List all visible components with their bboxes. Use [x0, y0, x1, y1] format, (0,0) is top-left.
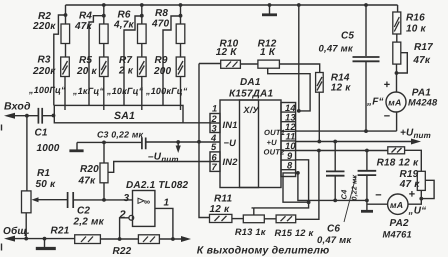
svg-text:R1: R1	[37, 168, 50, 179]
svg-text:13: 13	[285, 112, 296, 122]
svg-text:−: −	[375, 190, 382, 202]
svg-text:∞: ∞	[144, 197, 150, 207]
svg-text:1: 1	[164, 198, 170, 209]
svg-text:OUT1: OUT1	[264, 128, 285, 137]
svg-text:„1кГц“: „1кГц“	[72, 86, 104, 96]
ground (top middle)	[269, 5, 271, 14]
svg-text:6: 6	[212, 153, 218, 163]
svg-text:R7: R7	[119, 55, 132, 66]
wire +U (pin11) with supply arrow	[296, 141, 413, 143]
wire OUT1 (pin12)	[296, 130, 397, 132]
svg-text:X/У: X/У	[243, 105, 260, 115]
svg-text:47к: 47к	[78, 176, 97, 187]
resistor R3	[61, 57, 70, 77]
svg-text:0,47 мк: 0,47 мк	[317, 235, 352, 246]
svg-text:R13 1к: R13 1к	[235, 227, 267, 237]
svg-text:12 К: 12 К	[216, 47, 238, 58]
edge stub	[1, 244, 3, 251]
wire R8 column top	[180, 5, 182, 24]
resistor R5	[100, 57, 109, 77]
resistor R12	[258, 60, 280, 68]
wire output pin1	[155, 208, 173, 239]
wire OUT2 (pin10)	[296, 150, 388, 152]
svg-text:470: 470	[151, 19, 170, 30]
svg-text:+U: +U	[267, 138, 278, 147]
svg-text:0,47 мк: 0,47 мк	[319, 44, 354, 55]
node C1-SA1	[52, 114, 56, 118]
wire C5 bottom	[365, 61, 367, 131]
svg-text:+: +	[384, 79, 391, 91]
svg-text:5: 5	[211, 142, 217, 152]
svg-text:С4: С4	[340, 189, 349, 200]
svg-text:47к: 47к	[412, 55, 431, 66]
wire pin2	[120, 218, 129, 239]
wire R1 bottom to common	[25, 213, 27, 239]
wire R6-R7	[141, 44, 143, 58]
svg-text:3: 3	[212, 123, 218, 133]
svg-text:R5: R5	[79, 55, 92, 66]
wire SA1 tap 3	[124, 16, 142, 105]
svg-text:C5: C5	[341, 31, 354, 42]
node R4 top	[102, 14, 106, 18]
pin box 2-3	[210, 114, 220, 133]
wire -U feed vertical	[199, 64, 210, 218]
svg-text:R16: R16	[406, 13, 425, 24]
wire R10-R12	[240, 63, 258, 65]
wire R10 left	[199, 63, 221, 65]
svg-text:2,2 мк: 2,2 мк	[73, 217, 105, 228]
svg-text:10: 10	[285, 141, 296, 151]
svg-text:IN2: IN2	[223, 157, 239, 167]
pin ladder right	[281, 103, 296, 177]
svg-text:47к: 47к	[74, 21, 93, 32]
capacitor C6	[366, 151, 368, 171]
wire R2-R3	[65, 44, 67, 58]
svg-text:мА: мА	[390, 200, 403, 210]
wire pin9 to R13 tap	[254, 160, 309, 208]
inverting input bubble	[129, 215, 134, 220]
resistor R11	[210, 214, 232, 222]
node R8 top	[179, 14, 183, 18]
node pin1 drop	[171, 237, 175, 241]
svg-text:C2: C2	[77, 206, 90, 217]
edge stub	[1, 125, 3, 131]
wire C3 to -U pin	[146, 141, 220, 143]
node C6 bottom	[365, 199, 369, 203]
R13 tap stub	[252, 208, 254, 215]
svg-text:−U: −U	[224, 138, 237, 148]
svg-text:R8: R8	[155, 8, 168, 19]
svg-text:+: +	[409, 189, 416, 201]
capacitor C2	[68, 192, 74, 208]
svg-text:мА: мА	[388, 98, 401, 108]
svg-text:12: 12	[285, 122, 296, 132]
svg-text:1000: 1000	[37, 143, 60, 154]
svg-text:К выходному делителю: К выходному делителю	[197, 245, 330, 257]
svg-text:11: 11	[286, 132, 296, 142]
svg-text:10 к: 10 к	[406, 24, 427, 35]
wire R12-R14	[279, 64, 319, 73]
meter PA1	[386, 92, 406, 112]
node R20 bottom	[102, 198, 106, 202]
wire R19 tap	[421, 180, 434, 198]
resistor R7	[138, 57, 147, 77]
svg-text:PA2: PA2	[390, 218, 410, 229]
wire R17 tap	[397, 53, 408, 73]
capacitor C1	[38, 108, 42, 124]
svg-text:OUT2: OUT2	[264, 148, 286, 157]
wire R12 tap to pins 13-14	[268, 68, 310, 111]
node R14-U	[317, 140, 321, 144]
pin box 6-7	[210, 152, 220, 172]
resistor R4	[100, 24, 109, 44]
node rail-R4	[102, 3, 106, 7]
wire R20 top	[103, 142, 105, 163]
capacitor C4	[334, 142, 336, 172]
svg-text:200: 200	[153, 66, 172, 77]
node rail-ground	[268, 3, 272, 7]
node rail-pin13	[297, 3, 301, 7]
resistor R15	[276, 215, 296, 223]
wire C2 to DA2 input 3	[73, 199, 132, 201]
svg-text:„F“: „F“	[366, 97, 384, 108]
node R1-common	[24, 237, 28, 241]
resistor R2	[61, 24, 70, 44]
svg-text:50 к: 50 к	[36, 179, 57, 190]
svg-text:R21: R21	[51, 226, 70, 237]
svg-text:C1: C1	[35, 128, 48, 139]
wire R16-R17	[396, 34, 398, 42]
node pins 13-14	[297, 109, 301, 113]
resistor R8	[176, 24, 185, 44]
wire ground-C3	[77, 141, 142, 143]
ground (C6)	[361, 210, 373, 213]
wire R5-SA1	[103, 77, 105, 111]
wire R2 column top	[65, 5, 67, 24]
svg-text:2: 2	[211, 114, 218, 124]
svg-text:„100кГц“: „100кГц“	[145, 86, 188, 96]
wire R3-SA1	[64, 77, 66, 111]
wire R11-R13	[232, 218, 243, 220]
svg-text:20 к: 20 к	[76, 66, 98, 77]
wire SA1 tap 4	[163, 16, 181, 105]
switch SA1	[54, 105, 183, 122]
svg-text:220к: 220к	[32, 21, 56, 32]
wire SA1 tap 2	[89, 16, 104, 106]
svg-text:Общ.: Общ.	[3, 226, 30, 237]
wire R6 column top	[141, 5, 143, 24]
node -U junction	[197, 140, 201, 144]
wire R9-SA1	[180, 77, 182, 111]
svg-text:IN1: IN1	[223, 120, 238, 130]
wire R14 bottom	[318, 92, 320, 141]
node rail-R6	[140, 3, 144, 7]
svg-text:М4248: М4248	[408, 98, 438, 108]
node R2 top	[64, 13, 68, 17]
wire pin8 down	[296, 173, 367, 201]
wire R4-R5	[103, 44, 105, 58]
svg-text:R18 12 к: R18 12 к	[377, 157, 419, 168]
wire R18 to R19	[405, 150, 422, 171]
svg-text:DA2.1 TL082: DA2.1 TL082	[126, 180, 188, 191]
node R17 tap	[395, 71, 399, 75]
resistor R20	[100, 163, 108, 183]
node pin2 drop	[118, 237, 122, 241]
resistor R16	[393, 12, 401, 34]
wire rail to pin13-14	[298, 5, 300, 111]
svg-text:8: 8	[287, 160, 293, 170]
svg-text:12 к: 12 к	[331, 83, 352, 94]
svg-text:R11: R11	[214, 194, 232, 205]
wire R20 tap to IN2	[108, 162, 210, 173]
wire top rail	[66, 4, 398, 6]
resistor R19	[417, 171, 425, 190]
resistor R22	[138, 235, 159, 244]
svg-text:3: 3	[124, 193, 130, 204]
wire PA1 bottom	[396, 112, 398, 131]
ground (bottom left)	[44, 239, 46, 247]
node C6 top	[365, 149, 369, 153]
svg-text:R9: R9	[155, 55, 168, 66]
node C4 bottom	[333, 199, 337, 203]
node R19 tap	[419, 197, 423, 201]
svg-text:−: −	[384, 111, 391, 123]
node ground-common	[43, 237, 47, 241]
svg-text:„U“: „U“	[408, 206, 427, 217]
-Upit arrow	[176, 140, 180, 144]
svg-text:„10кГц“: „10кГц“	[106, 86, 144, 96]
wire R15 right up to OUT2	[296, 151, 319, 220]
resistor R17	[393, 42, 401, 64]
wire pin8 loop	[283, 173, 309, 202]
C6 label leader	[344, 176, 356, 222]
potentiometer R1	[22, 191, 32, 213]
wire C1-SA1	[42, 115, 54, 117]
svg-text:1 К: 1 К	[260, 47, 276, 58]
svg-text:„100Гц“: „100Гц“	[28, 85, 66, 95]
wire input to R1	[26, 116, 28, 191]
svg-text:2 к: 2 к	[118, 66, 134, 77]
node pin8	[296, 171, 300, 175]
wire SA1 to pins 2-3	[183, 122, 210, 124]
wire R19 bottom to PA2	[408, 190, 421, 204]
node C5-OUT1	[364, 129, 368, 133]
svg-text:4,7к: 4,7к	[113, 20, 135, 31]
chip inner block	[240, 100, 259, 188]
wire R4 column top	[103, 5, 105, 24]
svg-text:М4761: М4761	[383, 230, 412, 240]
chip body	[220, 100, 281, 188]
node OUT2-R15 drop	[317, 149, 321, 153]
resistor R9	[176, 57, 185, 77]
wire rail corner to R16	[397, 5, 399, 12]
svg-text:DA1: DA1	[240, 77, 261, 88]
resistor R18	[388, 147, 405, 154]
node rail-C5	[364, 3, 368, 7]
node C4 top	[333, 140, 337, 144]
wire R22-output	[159, 238, 183, 240]
resistor R13	[243, 215, 264, 223]
svg-text:C3 0,22 мк: C3 0,22 мк	[97, 129, 144, 139]
node rail-R8	[179, 3, 183, 7]
svg-text:12 к: 12 к	[210, 204, 231, 215]
resistor R10	[221, 60, 241, 68]
svg-text:7: 7	[212, 162, 218, 172]
svg-text:R20: R20	[80, 164, 99, 175]
wire R8-R9	[180, 44, 182, 58]
ground (C3 left)	[76, 142, 78, 149]
node loop-pin9	[307, 200, 311, 204]
svg-text:220к: 220к	[32, 66, 56, 77]
meter PA2	[388, 194, 408, 214]
wire R7-SA1	[141, 77, 143, 111]
svg-text:14: 14	[285, 103, 296, 113]
wire SA1 tap 1 (staircase from R2 top)	[54, 15, 66, 105]
wire R20 bottom	[103, 183, 105, 200]
svg-text:9: 9	[287, 151, 293, 161]
svg-text:С6: С6	[327, 224, 340, 235]
wire R17 bottom to PA1	[396, 64, 398, 92]
resistor R14	[316, 73, 324, 93]
svg-text:R17: R17	[414, 42, 433, 53]
wire R21-R22	[100, 238, 138, 240]
wiper R1	[32, 197, 39, 202]
node R6 top	[140, 14, 144, 18]
wire PA2 left	[367, 203, 388, 205]
node R20 top	[102, 141, 106, 145]
svg-text:Вход: Вход	[4, 101, 31, 113]
output arrow	[181, 236, 191, 242]
resistor R21	[75, 235, 101, 244]
svg-text:R22: R22	[113, 246, 132, 257]
svg-text:SA1: SA1	[114, 110, 135, 122]
node input	[25, 114, 29, 118]
resistor R6	[138, 24, 147, 44]
svg-text:К157ДА1: К157ДА1	[229, 88, 273, 99]
svg-text:R3: R3	[38, 55, 51, 66]
wire R13-R15	[264, 218, 276, 220]
svg-text:R15 12 к: R15 12 к	[275, 228, 315, 238]
svg-text:1: 1	[212, 104, 217, 114]
